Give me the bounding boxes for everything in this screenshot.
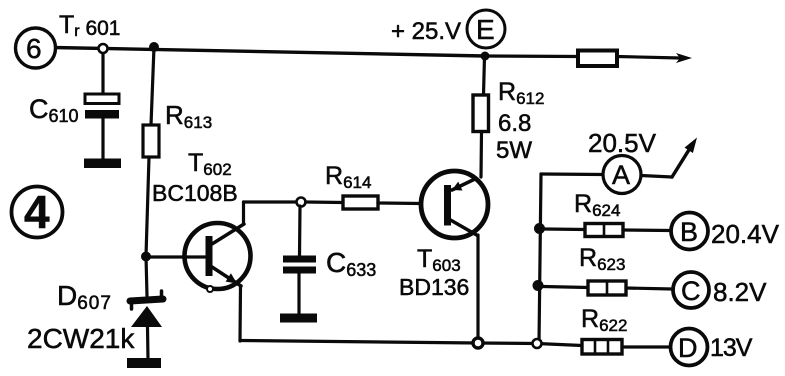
svg-text:D: D xyxy=(678,333,698,363)
svg-text:A: A xyxy=(612,160,630,190)
svg-text:6: 6 xyxy=(26,33,42,64)
svg-text:BD136: BD136 xyxy=(399,274,469,300)
svg-text:20.4V: 20.4V xyxy=(711,219,780,249)
svg-text:4: 4 xyxy=(24,186,50,238)
svg-text:13V: 13V xyxy=(710,334,753,362)
svg-text:2CW21k: 2CW21k xyxy=(27,323,135,354)
svg-text:8.2V: 8.2V xyxy=(713,277,767,307)
svg-text:6.8: 6.8 xyxy=(498,110,531,137)
svg-text:5W: 5W xyxy=(496,137,532,164)
svg-text:BC108B: BC108B xyxy=(152,180,238,206)
svg-text:20.5V: 20.5V xyxy=(588,128,657,158)
svg-text:+ 25.V: + 25.V xyxy=(391,18,461,45)
svg-text:B: B xyxy=(680,217,698,247)
svg-text:E: E xyxy=(476,14,495,45)
svg-text:C: C xyxy=(681,276,701,306)
